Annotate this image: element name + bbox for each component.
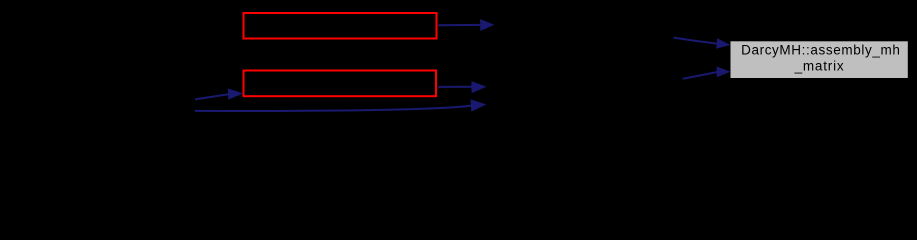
node: red box 1 (truncated caller, top) (244, 13, 437, 39)
wire: edge 5 long curve from hidden left node to hidden middle node (195, 106, 472, 111)
node: gray current node DarcyMH::assembly_mh_matrix (731, 41, 908, 78)
arrowhead edge 4 (228, 88, 244, 99)
wire: edge 4 from hidden left node to box2 (195, 94, 229, 99)
svg-text:DarcyMH::assembly_mh: DarcyMH::assembly_mh (741, 43, 900, 58)
wire: edge 1 from box1 to hidden middle node (438, 24, 481, 26)
arrowhead edge 5 (471, 99, 487, 111)
arrowhead edge 3 (471, 81, 486, 93)
wire: edge 2 from hidden middle node to gray box (upper) (674, 38, 718, 44)
call graph diagram (0, 0, 917, 127)
arrowhead edge 1 (480, 19, 494, 31)
arrowhead edge 6 (717, 67, 731, 78)
wire: edge 6 from hidden middle node to gray box (lower) (683, 72, 718, 79)
arrowhead edge 2 (716, 38, 730, 48)
node: red box 2 (truncated caller, bottom) (244, 71, 437, 97)
svg-text:_matrix: _matrix (794, 59, 845, 74)
wire: edge 3 from box2 to hidden middle node (lower) (438, 86, 473, 88)
